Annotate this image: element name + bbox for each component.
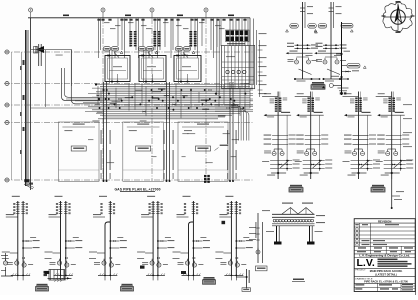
riser C2 lower branches [303, 160, 325, 162]
slab3 detail note [220, 145, 229, 146]
right section pipe verticals [224, 46, 226, 88]
riser D1 bottom [357, 172, 359, 174]
plan pipe risers top section [98, 19, 100, 59]
riser G5 valves [185, 261, 189, 265]
riser E bottom marks [340, 92, 343, 94]
grid line col 3 [151, 18, 153, 181]
riser G0 partial left edge [3, 261, 7, 265]
riser C1 companion line [286, 115, 288, 171]
riser G2 el branches [66, 240, 75, 242]
riser D2 companion line [400, 115, 402, 171]
riser G5 branch w/ labels left [181, 252, 189, 254]
plan riser pair line 2 [106, 82, 108, 181]
riser D2 valves [386, 152, 390, 156]
riser B1 top ticks [300, 7, 305, 9]
riser D2 top left line [376, 95, 392, 97]
column block cluster slab3 [204, 175, 207, 177]
riser G2 valves [57, 261, 61, 265]
riser B2 main line [330, 2, 332, 79]
riser G5 el branches [193, 240, 202, 242]
elevation pipe circles [273, 219, 276, 222]
riser G4 el branches [158, 240, 167, 242]
plan right edge risers [253, 19, 255, 86]
riser D2 extension [391, 179, 393, 208]
pipe band bowties [97, 94, 100, 96]
riser E right capsule [347, 64, 360, 69]
riser C1 top left line [262, 95, 278, 97]
riser G5 base [182, 274, 201, 276]
plan riser pair line 3 [166, 82, 168, 181]
riser E far left flag [322, 86, 325, 88]
riser B1 flags [286, 30, 289, 33]
svg-text:PROJECT:: PROJECT: [355, 270, 366, 272]
riser G2 line b [65, 201, 67, 275]
compass cloud [383, 2, 412, 32]
riser G6 base [224, 274, 243, 276]
riser B1 label capsules [290, 24, 299, 29]
detail label G5 [204, 277, 215, 279]
wall tie marks [23, 60, 25, 65]
riser G3 upper branch [93, 216, 105, 218]
left dimension marks [20, 66, 21, 70]
pipe band labels [97, 112, 103, 113]
riser D2 diagonal [394, 160, 403, 168]
riser G5 upper branch [177, 216, 189, 218]
detail label G1 [37, 284, 48, 286]
riser G6 branch right [236, 276, 246, 278]
riser B2 bottom bar [324, 78, 349, 80]
riser G1 valves [15, 261, 19, 265]
equipment bay 3 crossing pipes [178, 50, 180, 83]
riser D2 branch main [380, 114, 405, 116]
elevation dim labels [282, 203, 293, 204]
detail label group B [312, 82, 324, 84]
riser D2 lower branches [384, 160, 406, 162]
riser B2 label capsules [318, 24, 327, 29]
column bubble col 3 [150, 8, 154, 12]
black marks bottom [45, 271, 50, 274]
riser G3 tick stack [109, 202, 112, 204]
equipment label capsules bay 1 [103, 47, 111, 51]
riser G6 upper branch [219, 216, 231, 218]
riser C1 lower branches [270, 160, 292, 162]
svg-text:PIPE RACK EL.+27000 & EL.+3170: PIPE RACK EL.+27000 & EL.+31700 [364, 279, 408, 283]
title block revision header [354, 222, 415, 224]
riser G3 line a [105, 222, 110, 275]
title block revision rows [354, 226, 415, 228]
equipment bay 3 leader [183, 53, 188, 58]
black block cluster top-right [226, 31, 229, 36]
riser G2 support frame [49, 270, 65, 281]
wall branch vertical [44, 50, 46, 107]
riser C2 branch main [299, 114, 324, 116]
foundation slab 2 [123, 122, 164, 181]
riser G5 line b [192, 201, 194, 275]
riser G6 line b [235, 201, 237, 275]
riser D1 valves [353, 152, 357, 156]
equipment bay 2 leader [148, 53, 153, 58]
riser C2 diagonal [313, 160, 322, 168]
riser B1 left branch [289, 52, 313, 54]
riser G2 branch w/ labels left [53, 252, 61, 254]
equipment bay 2 [139, 56, 166, 82]
tick stack T1 [129, 31, 132, 33]
elevation left riser [257, 213, 259, 263]
riser G1 tick stack [16, 202, 19, 204]
foundation slab 3 [178, 122, 228, 181]
riser C2 main line [310, 92, 312, 180]
riser C1 valves [272, 152, 276, 156]
column bubble row 5 [5, 178, 9, 182]
riser B2 valves [323, 60, 327, 64]
riser C1 tick stack [275, 98, 278, 99]
riser E bottom branch [333, 85, 341, 87]
compass circle [391, 10, 406, 25]
top dimension marks [63, 15, 69, 17]
column bubble col 1 [29, 8, 33, 12]
plan right edge labels [259, 33, 267, 34]
pipe band vertical connectors [97, 86, 99, 105]
plan scattered annotations [182, 156, 186, 157]
riser G6 valves [228, 261, 232, 265]
riser C2 bottom [310, 172, 312, 174]
riser G6 tick stack [230, 202, 233, 204]
wall line W1 [25, 30, 27, 186]
riser C1 diagonal [280, 160, 289, 168]
svg-text:L.V.: L.V. [357, 257, 375, 269]
grid line row 3 [4, 104, 253, 106]
title block signature header [354, 249, 415, 251]
plan top border wire [28, 17, 250, 19]
detail label group C [290, 185, 302, 187]
riser E main line [341, 22, 343, 95]
riser G2 upper branch [49, 216, 61, 218]
riser B1 main line [302, 2, 304, 79]
riser D2 tick stack [388, 98, 391, 99]
grid line row 2 [4, 83, 253, 85]
flag twin bars [38, 44, 40, 66]
elevation lower beam [272, 223, 315, 225]
riser B1 valves [295, 60, 299, 64]
grid line col 2 [102, 18, 104, 181]
riser G3 el branches [110, 240, 119, 242]
riser C2 valves [305, 152, 309, 156]
riser G4 line b [157, 201, 159, 275]
riser E top flag [350, 30, 353, 32]
plan riser pair line 1 [103, 82, 105, 181]
riser G5 top label [183, 196, 191, 197]
riser C1 bottom [277, 172, 279, 174]
riser B1 diagonal [299, 69, 312, 75]
plan right border wire [249, 18, 251, 85]
equipment bay 1 leader [114, 53, 119, 58]
right section ties [222, 61, 254, 63]
riser C1 branch main [267, 114, 292, 116]
riser B1 bottom bar [295, 78, 320, 80]
riser B2 top ticks [329, 7, 334, 9]
compass needle [394, 5, 398, 24]
column bubble col 2 [101, 8, 105, 12]
plan riser pair line 6 [232, 82, 234, 181]
tick stack T2 [153, 31, 156, 33]
riser G1 upper branch [6, 216, 18, 218]
svg-text:(LATEST DETAIL): (LATEST DETAIL) [375, 272, 397, 276]
riser G2 base [54, 274, 73, 276]
drain drop line [246, 269, 248, 289]
title block outline [354, 219, 415, 292]
pipe band junction dots [180, 89, 182, 91]
riser E right branch [342, 71, 352, 73]
detail label group D [372, 185, 384, 187]
riser G4 valves [150, 261, 154, 265]
equipment bay 3 [174, 56, 201, 82]
page right border [415, 0, 417, 295]
elevation detail text [293, 279, 304, 281]
riser G4 line a [152, 201, 154, 275]
riser E mid dot [340, 76, 342, 78]
drain drop bottom box [242, 288, 251, 292]
wall valve flag [36, 46, 44, 53]
riser G5 line a [189, 222, 194, 275]
riser G3 valves [102, 261, 106, 265]
riser G3 base [98, 274, 117, 276]
left tie line [21, 52, 23, 180]
riser D1 top left line [343, 95, 359, 97]
plan riser labels vertical [101, 130, 102, 144]
riser G4 base [146, 274, 165, 276]
equipment label capsules bay 3 [175, 47, 183, 51]
riser G1 line a [17, 201, 19, 275]
elevation feet [274, 242, 282, 245]
riser B2 branch ticks [323, 44, 339, 46]
riser G3 line b [109, 201, 111, 275]
riser D2 mid ticks [386, 135, 402, 137]
detail label G3 [122, 284, 133, 286]
band elbow bundle [215, 104, 239, 140]
riser B2 left branch [317, 52, 341, 54]
riser G2 top label [55, 196, 63, 197]
column bubble row 1 [5, 50, 9, 54]
riser B2 flags [314, 30, 317, 33]
top border connection marks [97, 19, 100, 21]
left bubble tie line [10, 52, 12, 180]
riser C1 main line [277, 92, 279, 180]
plan riser pair line 5 [229, 82, 231, 181]
riser E top capsule [341, 23, 353, 28]
right margin labels [403, 104, 412, 105]
svg-text:GAS PIPE PLAN EL.+27000: GAS PIPE PLAN EL.+27000 [114, 187, 160, 191]
riser D1 lower branches [351, 160, 373, 162]
right section outer pipes [216, 20, 218, 95]
riser D1 mid ticks [353, 135, 369, 137]
elevation left riser label box [256, 266, 268, 271]
riser E left branch [336, 53, 342, 55]
equipment bay 1 [105, 56, 130, 82]
riser G3 top label [99, 196, 107, 197]
column bubble row 4 [5, 121, 9, 125]
elevation top beam [272, 213, 315, 215]
grid line col 4 [205, 18, 207, 181]
elevation legs [276, 226, 278, 244]
riser G4 top label [147, 196, 155, 197]
grid line row 1 [4, 51, 253, 53]
riser G5 tick stack [192, 202, 195, 204]
riser G2 line a [60, 201, 62, 275]
riser B1 branch ticks [295, 44, 311, 46]
equipment bay 2 crossing pipes [143, 50, 145, 83]
plan left border wire [30, 18, 32, 190]
grid line row 5 [4, 179, 253, 181]
wall detail left [34, 47, 38, 54]
compass labels [396, 1, 401, 3]
left elbow pipe 2 [71, 50, 100, 104]
riser G6 branch w/ labels left [223, 252, 231, 254]
riser C1 mid ticks [272, 135, 288, 137]
riser G1 top label [12, 196, 20, 197]
right section room outline [222, 45, 255, 88]
riser D2 bottom [391, 172, 393, 174]
riser D1 branch main [347, 114, 372, 116]
riser E right flag [363, 66, 366, 68]
tick stack T3 [189, 31, 192, 33]
riser D1 diagonal [361, 160, 370, 168]
riser G2 tick stack [59, 202, 62, 204]
left elbow pipe 1 [62, 68, 101, 101]
elevation leg labels [266, 231, 274, 232]
elevation braces [282, 208, 298, 215]
riser G6 top label [225, 196, 233, 197]
elevation side labels [316, 215, 325, 216]
riser D1 companion line [367, 115, 369, 171]
plan top section labels [104, 22, 110, 23]
wall line W2 [27, 30, 29, 186]
riser G4 upper branch [141, 216, 153, 218]
riser C2 tick stack [307, 98, 310, 99]
riser G6 line a [230, 201, 232, 275]
column bubble row 2 [5, 82, 9, 86]
svg-text:REVISION: REVISION [378, 219, 391, 223]
riser G4 tick stack [151, 202, 154, 204]
riser D1 main line [358, 92, 360, 180]
grid line row 4 [4, 122, 253, 124]
riser G3 branch w/ labels left [97, 252, 105, 254]
equipment bay 1 crossing pipes [109, 50, 111, 83]
left cluster dots [95, 83, 97, 85]
riser C2 mid ticks [305, 135, 321, 137]
wall base junction [24, 179, 29, 182]
column bubble row 3 [5, 103, 9, 107]
compass crosshair [384, 16, 412, 18]
riser B2 diagonal [327, 69, 340, 75]
foundation slab 1 [58, 122, 99, 181]
riser G1 base [11, 274, 30, 276]
column bubble col 4 [204, 8, 208, 12]
riser G6 el branches [236, 240, 245, 242]
riser D2 main line [391, 92, 393, 180]
right section pump circles [226, 70, 229, 73]
equipment label capsules bay 2 [138, 47, 146, 51]
riser G1 el branches [23, 240, 32, 242]
riser C2 companion line [319, 115, 321, 171]
riser G1 line b [22, 201, 24, 275]
riser D1 tick stack [355, 98, 358, 99]
riser C2 top left line [295, 95, 311, 97]
pipe run band [96, 84, 253, 86]
title block bottom cells [376, 283, 378, 291]
plan riser pair line 4 [169, 82, 171, 181]
riser G4 branch w/ labels left [145, 252, 153, 254]
left elbow pipe 3 [65, 68, 101, 97]
riser G1 branch w/ labels left [10, 252, 18, 254]
